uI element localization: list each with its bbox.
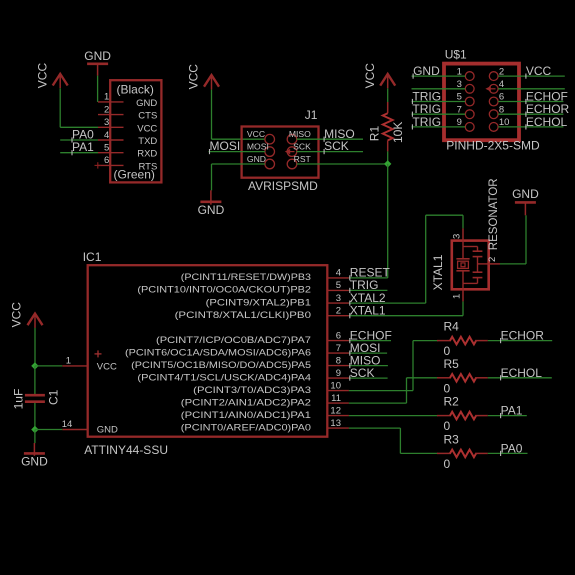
svg-text:GND: GND	[97, 424, 118, 435]
svg-text:U$1: U$1	[445, 48, 467, 62]
svg-text:14: 14	[62, 419, 73, 430]
svg-text:VCC: VCC	[526, 64, 552, 78]
svg-text:PINHD-2X5-SMD: PINHD-2X5-SMD	[446, 139, 540, 153]
svg-text:AVRISPSMD: AVRISPSMD	[248, 179, 318, 193]
svg-text:10K: 10K	[391, 122, 405, 143]
svg-text:(PCINT10/INT0/OC0A/CKOUT)PB2: (PCINT10/INT0/OC0A/CKOUT)PB2	[137, 285, 311, 296]
svg-text:(PCINT2/AIN1/ADC2)PA2: (PCINT2/AIN1/ADC2)PA2	[181, 397, 311, 408]
svg-text:7: 7	[336, 343, 341, 354]
svg-text:ECHOL: ECHOL	[526, 115, 568, 129]
svg-text:(PCINT6/OC1A/SDA/MOSI/ADC6)PA6: (PCINT6/OC1A/SDA/MOSI/ADC6)PA6	[125, 347, 311, 358]
svg-text:SCK: SCK	[293, 142, 311, 152]
svg-text:13: 13	[330, 418, 341, 429]
svg-text:SCK: SCK	[350, 366, 375, 380]
svg-text:GND: GND	[198, 203, 225, 217]
svg-text:9: 9	[336, 368, 341, 379]
svg-text:GND: GND	[413, 64, 440, 78]
svg-text:2: 2	[336, 306, 341, 317]
svg-text:0: 0	[444, 419, 451, 433]
svg-text:10: 10	[330, 380, 341, 391]
svg-text:RST: RST	[294, 154, 312, 164]
svg-text:PA1: PA1	[501, 404, 523, 418]
svg-text:GND: GND	[247, 154, 266, 164]
svg-text:GND: GND	[21, 455, 48, 469]
svg-text:TXD: TXD	[138, 136, 157, 147]
svg-text:2: 2	[104, 104, 109, 115]
svg-text:1: 1	[451, 294, 462, 299]
svg-text:VCC: VCC	[363, 63, 377, 89]
svg-text:MOSI: MOSI	[247, 142, 269, 152]
svg-text:(PCINT0/AREF/ADC0)PA0: (PCINT0/AREF/ADC0)PA0	[181, 422, 311, 433]
svg-text:R2: R2	[444, 395, 460, 409]
svg-text:R1: R1	[367, 126, 381, 142]
svg-text:1: 1	[104, 92, 109, 103]
svg-text:1: 1	[66, 356, 71, 367]
svg-text:MOSI: MOSI	[210, 139, 241, 153]
svg-text:CTS: CTS	[138, 111, 157, 122]
svg-text:RTS: RTS	[138, 161, 157, 172]
svg-text:R4: R4	[444, 320, 460, 334]
svg-text:4: 4	[104, 130, 109, 141]
svg-text:VCC: VCC	[247, 129, 265, 139]
svg-text:6: 6	[336, 330, 341, 341]
svg-text:5: 5	[336, 280, 341, 291]
svg-text:2: 2	[487, 257, 498, 262]
svg-text:PA1: PA1	[72, 140, 94, 154]
svg-text:(PCINT7/ICP/OC0B/ADC7)PA7: (PCINT7/ICP/OC0B/ADC7)PA7	[156, 335, 311, 346]
svg-text:XTAL1: XTAL1	[431, 254, 445, 290]
svg-text:VCC: VCC	[10, 302, 24, 328]
svg-text:VCC: VCC	[187, 64, 201, 90]
svg-text:4: 4	[336, 268, 341, 279]
svg-text:VCC: VCC	[137, 123, 157, 134]
svg-text:RXD: RXD	[137, 149, 157, 160]
svg-text:R5: R5	[444, 357, 460, 371]
svg-text:GND: GND	[512, 187, 539, 201]
svg-text:(PCINT4/T1/SCL/USCK/ADC4)PA4: (PCINT4/T1/SCL/USCK/ADC4)PA4	[137, 372, 311, 383]
svg-text:MISO: MISO	[289, 129, 311, 139]
svg-text:(Black): (Black)	[117, 83, 154, 97]
svg-text:GND: GND	[84, 49, 111, 63]
svg-text:0: 0	[444, 381, 451, 395]
svg-text:5: 5	[104, 143, 109, 154]
svg-text:(PCINT8/XTAL1/CLKI)PB0: (PCINT8/XTAL1/CLKI)PB0	[175, 310, 311, 321]
svg-text:6: 6	[104, 155, 109, 166]
svg-text:8: 8	[336, 355, 341, 366]
svg-text:1uF: 1uF	[12, 389, 26, 410]
svg-text:12: 12	[330, 405, 341, 416]
svg-text:IC1: IC1	[83, 250, 102, 264]
svg-text:PA0: PA0	[501, 441, 523, 455]
svg-text:ATTINY44-SSU: ATTINY44-SSU	[84, 443, 168, 457]
svg-text:RESONATOR: RESONATOR	[488, 178, 500, 250]
svg-text:(PCINT11/RESET/DW)PB3: (PCINT11/RESET/DW)PB3	[181, 272, 311, 283]
svg-text:ECHOL: ECHOL	[501, 366, 543, 380]
svg-text:XTAL1: XTAL1	[350, 303, 386, 317]
svg-text:3: 3	[104, 117, 109, 128]
svg-text:C1: C1	[46, 389, 60, 405]
svg-text:(PCINT5/OC1B/MISO/DO/ADC5)PA5: (PCINT5/OC1B/MISO/DO/ADC5)PA5	[131, 360, 311, 371]
svg-text:J1: J1	[305, 108, 318, 122]
svg-text:(PCINT3/T0/ADC3)PA3: (PCINT3/T0/ADC3)PA3	[193, 385, 311, 396]
svg-text:0: 0	[444, 457, 451, 471]
svg-text:R3: R3	[444, 432, 460, 446]
svg-text:3: 3	[336, 293, 341, 304]
svg-text:11: 11	[331, 393, 341, 404]
svg-text:SCK: SCK	[324, 139, 349, 153]
svg-text:VCC: VCC	[97, 361, 117, 372]
svg-text:3: 3	[451, 234, 462, 239]
svg-text:ECHOR: ECHOR	[501, 329, 545, 343]
svg-text:TRIG: TRIG	[412, 115, 441, 129]
svg-text:(PCINT1/AIN0/ADC1)PA1: (PCINT1/AIN0/ADC1)PA1	[181, 410, 311, 421]
svg-text:GND: GND	[136, 98, 157, 109]
svg-text:VCC: VCC	[35, 63, 49, 89]
svg-text:(PCINT9/XTAL2)PB1: (PCINT9/XTAL2)PB1	[206, 297, 311, 308]
